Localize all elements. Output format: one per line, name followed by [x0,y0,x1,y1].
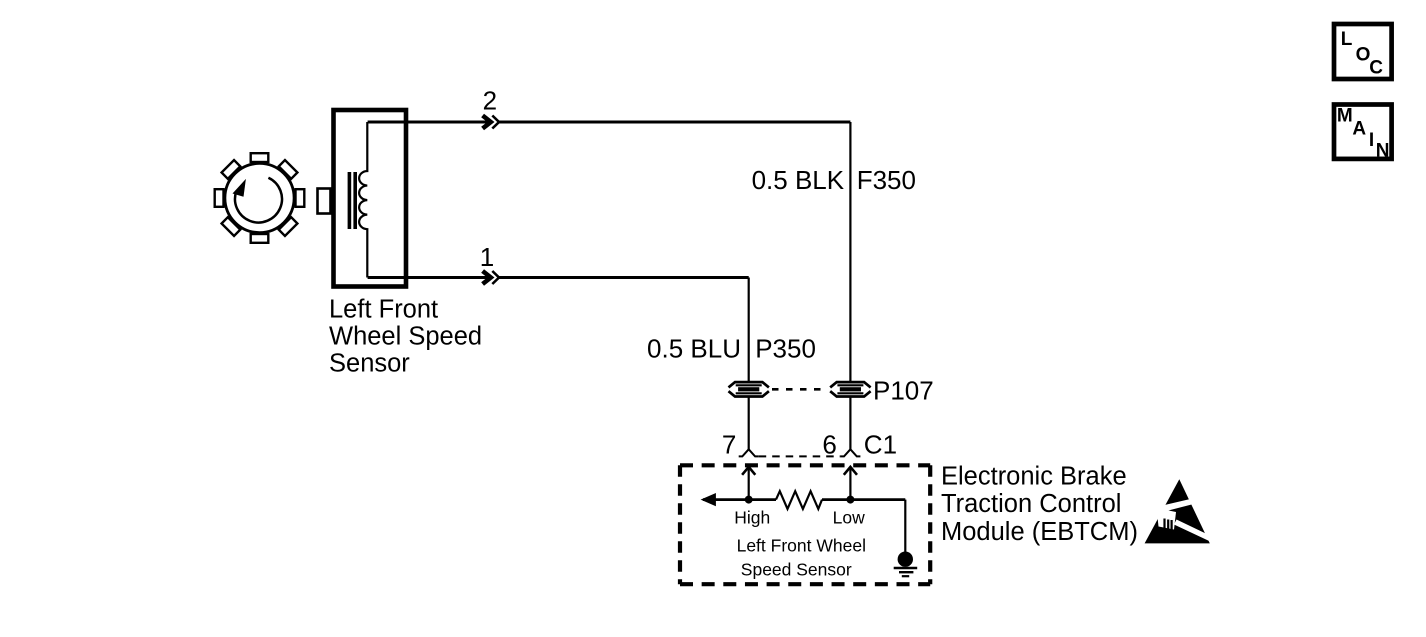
svg-text:Electronic Brake: Electronic Brake [941,463,1127,491]
ESD sensitive symbol [1145,479,1212,543]
svg-text:Left Front: Left Front [329,295,438,323]
rotation arrow inside wheel [233,178,282,223]
svg-text:Sensor: Sensor [329,350,410,378]
signal arrowhead (to module, left) [701,493,716,506]
svg-text:O: O [1356,45,1371,66]
node Low (junction dot) [846,496,854,504]
wire 2 splice marker (double chevron) [483,116,499,129]
node High (junction dot) [745,496,753,504]
svg-text:M: M [1337,106,1353,127]
svg-text:Module (EBTCM): Module (EBTCM) [941,518,1138,546]
svg-text:6: 6 [822,429,836,459]
svg-text:L: L [1341,29,1353,50]
pin 7 socket [739,449,759,456]
sensor box (Left Front Wheel Speed Sensor) [334,110,407,287]
label: Electronic Brake Traction Control Module (EBTCM) [941,463,1138,547]
inline connector P350 [729,382,769,396]
inductor coil [359,122,367,278]
wire 1 (bottom), left of marker [368,276,490,279]
wire 2 (top), left of marker [368,121,490,124]
tone wheel (toothed reluctor ring) [225,163,294,232]
inductor core lines [349,172,355,229]
svg-text:7: 7 [722,429,736,459]
svg-text:C1: C1 [864,429,897,459]
dashed connector face line [759,455,841,457]
svg-text:Low: Low [833,508,865,528]
svg-text:Speed Sensor: Speed Sensor [741,560,852,580]
svg-text:0.5 BLK: 0.5 BLK [752,165,845,195]
svg-text:1: 1 [480,242,494,272]
EBTCM dashed box [680,465,930,584]
svg-text:P107: P107 [873,376,934,406]
wheel teeth [215,153,305,243]
wire: internal bus right segment [822,498,905,501]
dashed link between connectors [772,388,828,391]
wire 2 (top), right of marker [498,121,850,124]
svg-text:Traction Control: Traction Control [941,490,1121,518]
svg-text:P350: P350 [755,334,816,364]
svg-text:Left Front Wheel: Left Front Wheel [737,536,866,556]
svg-text:C: C [1369,58,1383,79]
svg-text:High: High [734,508,770,528]
ground (chassis ground symbol) [894,552,918,577]
svg-text:I: I [1369,130,1374,151]
sensor pickup tab [318,189,331,214]
svg-text:N: N [1376,141,1390,162]
svg-text:Wheel Speed: Wheel Speed [329,323,482,351]
wire 1 splice marker (double chevron) [483,271,499,284]
pin 6 socket [840,449,860,456]
input arrow pin 7 [742,467,755,500]
svg-text:F350: F350 [857,165,916,195]
wire F350 0.5 BLK vertical, lower segment [849,397,851,449]
wire 1 (bottom), right of marker [498,276,749,279]
wire F350 0.5 BLK vertical, upper segment [849,122,851,381]
inline connector P107 [830,382,870,396]
caption inside EBTCM: Left Front Wheel Speed Sensor [737,536,866,580]
wire P350 0.5 BLU vertical, lower segment [748,397,750,449]
LOC tag box [1334,24,1392,79]
input arrow pin 6 [844,467,857,500]
wire: ground drop [904,500,906,553]
svg-text:2: 2 [483,86,497,116]
svg-text:0.5 BLU: 0.5 BLU [647,334,741,364]
resistor (sensor bias, unreferenced) [776,491,822,509]
wire: internal bus left segment [703,498,776,501]
MAIN tag box [1334,105,1392,162]
svg-text:A: A [1352,119,1366,140]
caption: Left Front Wheel Speed Sensor [329,295,482,377]
wire P350 0.5 BLU vertical, upper segment [748,278,750,382]
